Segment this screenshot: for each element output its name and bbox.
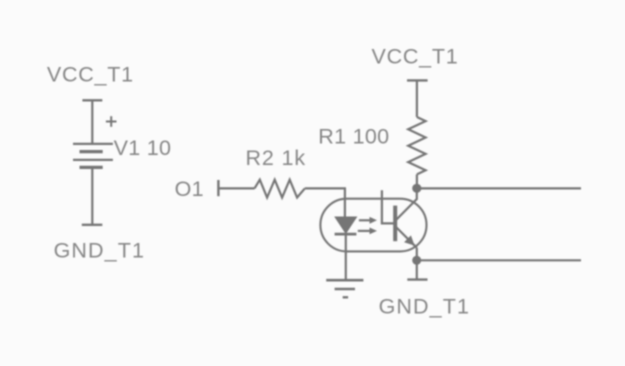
op-to-coupler U1 package outline	[320, 199, 426, 252]
ground symbol	[326, 280, 363, 297]
resistor R1	[408, 117, 425, 174]
LED cathode bar	[335, 233, 357, 236]
wire R2 to LED anode (with corner)	[305, 188, 345, 216]
svg-text:O1: O1	[175, 177, 204, 201]
wire VCC tick to R1	[416, 80, 418, 117]
junction dot collector node	[412, 184, 421, 193]
phototransistor base lead (open)	[382, 190, 394, 223]
wire emitter node to right	[417, 259, 581, 261]
voltage source V1 battery plates	[73, 144, 113, 168]
terminal tick GND_T1 (right)	[407, 278, 427, 280]
terminal tick VCC_T1 (left)	[82, 99, 102, 101]
svg-text:V1 10: V1 10	[114, 136, 172, 160]
wire emitter to node	[416, 248, 418, 260]
phototransistor emitter lead	[396, 227, 417, 248]
terminal tick GND_T1 (left)	[82, 224, 103, 226]
svg-text:VCC_T1: VCC_T1	[47, 63, 134, 87]
light arrow 2	[358, 228, 377, 235]
wire battery bottom to GND tick	[91, 167, 93, 224]
svg-text:GND_T1: GND_T1	[54, 239, 145, 263]
wire emitter node to GND tick	[416, 260, 418, 279]
svg-text:R2 1k: R2 1k	[246, 146, 306, 170]
resistor R2	[255, 180, 305, 198]
wire LED cathode to ground	[345, 234, 347, 280]
wire collector node to right	[417, 187, 581, 189]
wire VCC tick to battery top	[91, 100, 93, 144]
wire O1 to R2	[218, 187, 254, 189]
svg-text:VCC_T1: VCC_T1	[372, 45, 459, 69]
wire R1 to collector node	[416, 174, 418, 188]
phototransistor base bar	[393, 206, 397, 242]
phototransistor collector lead	[396, 188, 417, 220]
LED triangle (anode)	[335, 217, 356, 233]
junction dot emitter node	[412, 256, 421, 265]
voltage source V1 plus sign	[106, 116, 117, 127]
svg-text:R1 100: R1 100	[318, 124, 389, 148]
terminal tick VCC_T1 (right)	[407, 79, 428, 81]
port tick O1	[217, 180, 219, 196]
light arrow 1	[359, 217, 377, 224]
svg-text:GND_T1: GND_T1	[379, 294, 470, 318]
emitter arrowhead	[404, 235, 415, 245]
